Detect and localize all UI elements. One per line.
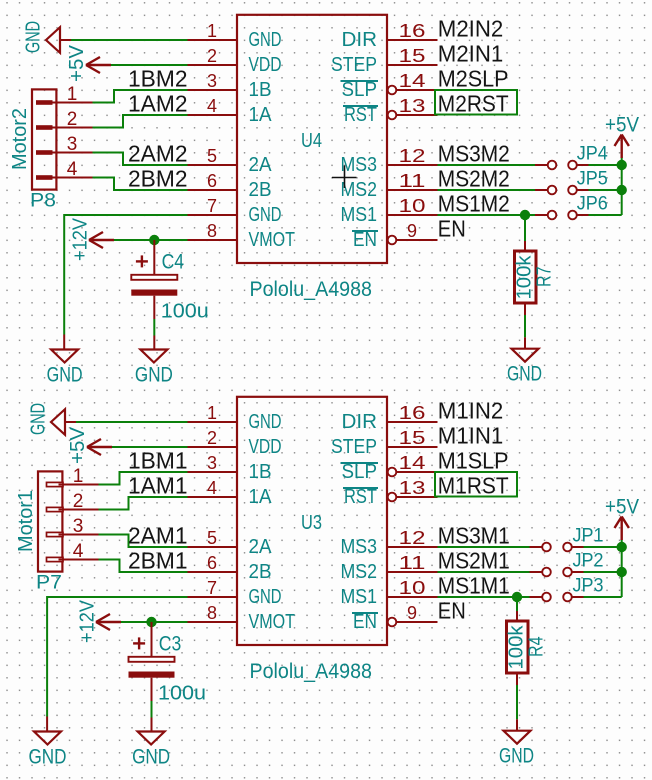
junction MS1M2 node: [520, 210, 530, 220]
pin 5 (2A): [188, 546, 238, 548]
wire GND to pin1: [76, 421, 188, 423]
svg-text:2AM2: 2AM2: [128, 141, 188, 167]
svg-text:16: 16: [399, 403, 426, 423]
wire C3 to ground: [151, 701, 153, 718]
capacitor C3 100u: [129, 622, 207, 705]
svg-text:JP1: JP1: [573, 525, 604, 546]
pin 9 (EN): [388, 236, 397, 245]
svg-text:+5V: +5V: [67, 426, 89, 464]
svg-text:MS1M1: MS1M1: [438, 573, 510, 599]
jumper JP5: [548, 168, 608, 194]
svg-text:GND: GND: [132, 745, 170, 768]
wire MS1M2 to R7: [524, 215, 526, 241]
svg-text:GND: GND: [28, 403, 50, 435]
wire P8 to 1BM2: [93, 90, 188, 103]
wire +5V rail: [621, 540, 623, 597]
svg-text:12: 12: [399, 146, 426, 166]
svg-text:+5V: +5V: [66, 44, 88, 82]
wire JP4 to +5V rail: [577, 164, 589, 166]
svg-text:VDD: VDD: [249, 54, 282, 76]
svg-text:MS2: MS2: [341, 561, 378, 583]
svg-text:MS1M2: MS1M2: [438, 191, 510, 217]
pin 10 (MS1): [387, 596, 438, 598]
svg-text:7: 7: [207, 578, 217, 598]
svg-text:8: 8: [207, 221, 217, 241]
svg-text:14: 14: [399, 453, 426, 473]
svg-text:MS1: MS1: [341, 204, 378, 226]
svg-text:4: 4: [207, 478, 217, 498]
svg-text:100k: 100k: [506, 624, 528, 669]
junction rail JP middle: [617, 185, 627, 195]
svg-text:2: 2: [73, 491, 84, 512]
power +5V (left): [67, 426, 112, 464]
svg-text:1B: 1B: [249, 79, 272, 101]
pin 14 (SLP): [388, 86, 397, 95]
global label box M2RST: [435, 90, 517, 115]
svg-text:STEP: STEP: [331, 436, 377, 458]
svg-text:MS3M2: MS3M2: [438, 141, 510, 167]
svg-text:2A: 2A: [249, 154, 273, 176]
svg-text:JP4: JP4: [577, 143, 608, 164]
pin 9 (EN): [388, 618, 397, 627]
pin 11 (MS2): [387, 571, 438, 573]
svg-text:16: 16: [399, 21, 426, 41]
svg-text:100u: 100u: [158, 683, 206, 705]
svg-text:MS3: MS3: [341, 154, 378, 176]
svg-text:JP6: JP6: [577, 193, 608, 214]
svg-text:3: 3: [67, 134, 78, 155]
svg-text:4: 4: [73, 541, 84, 562]
junction VMOT node: [146, 617, 156, 627]
wire P7 to 1BM1: [99, 472, 188, 485]
svg-text:Motor1: Motor1: [15, 490, 37, 552]
svg-text:+12V: +12V: [70, 217, 92, 261]
wire pin to MS1M1 jumper: [438, 596, 530, 598]
svg-text:GND: GND: [47, 363, 83, 386]
jumper JP6: [548, 193, 608, 219]
svg-text:M2IN1: M2IN1: [438, 41, 504, 67]
wire P8 to 1AM2: [93, 115, 188, 128]
wire P7 to 1AM1: [99, 497, 188, 510]
svg-text:EN: EN: [438, 216, 466, 242]
IC U3 Pololu_A4988: [188, 397, 438, 683]
svg-text:10: 10: [399, 196, 426, 216]
ground GND (under R4): [499, 731, 534, 768]
junction rail JP top: [617, 542, 627, 552]
svg-text:M2IN2: M2IN2: [438, 16, 504, 42]
svg-text:2B: 2B: [249, 179, 272, 201]
P7 pin 3: [47, 532, 64, 536]
svg-text:100u: 100u: [161, 301, 209, 323]
svg-text:M1RST: M1RST: [438, 473, 509, 499]
P8 pin 3: [36, 150, 53, 155]
svg-text:VDD: VDD: [249, 436, 282, 458]
svg-text:9: 9: [407, 603, 417, 623]
svg-text:3: 3: [207, 453, 217, 473]
wire MS1M1 to R4: [516, 597, 518, 611]
wire pin to MS3M2 jumper: [438, 164, 536, 166]
ground GND (top-left): [28, 403, 77, 435]
svg-text:1: 1: [67, 84, 78, 105]
svg-text:EN: EN: [353, 229, 377, 251]
wire P8 to 2AM2: [93, 153, 188, 166]
svg-text:11: 11: [399, 553, 426, 573]
svg-text:4: 4: [207, 96, 217, 116]
svg-text:P7: P7: [36, 573, 62, 594]
svg-text:DIR: DIR: [342, 29, 378, 51]
svg-text:13: 13: [399, 478, 426, 498]
svg-text:M2SLP: M2SLP: [438, 66, 509, 92]
ground GND (under R7): [507, 349, 542, 386]
wire R7 to ground: [524, 303, 526, 315]
svg-text:11: 11: [399, 171, 426, 191]
svg-text:GND: GND: [135, 363, 173, 386]
svg-text:U4: U4: [301, 130, 322, 152]
svg-text:3: 3: [207, 71, 217, 91]
svg-text:2: 2: [67, 109, 78, 130]
svg-text:6: 6: [207, 171, 217, 191]
svg-text:14: 14: [399, 71, 426, 91]
svg-text:P8: P8: [30, 191, 56, 212]
svg-text:2B: 2B: [249, 561, 272, 583]
svg-text:4: 4: [67, 159, 78, 180]
wire +5V rail: [621, 158, 623, 215]
svg-text:Pololu_A4988: Pololu_A4988: [250, 278, 373, 301]
pin 3 (1B): [188, 471, 238, 473]
svg-text:1: 1: [207, 403, 217, 423]
svg-text:1A: 1A: [249, 486, 273, 508]
svg-text:RST: RST: [344, 104, 377, 126]
svg-text:100k: 100k: [514, 254, 536, 299]
pin 14 (SLP): [388, 468, 397, 477]
junction rail JP top: [617, 160, 627, 170]
svg-text:GND: GND: [249, 29, 282, 51]
jumper JP2: [542, 550, 603, 576]
svg-text:1BM1: 1BM1: [128, 448, 188, 474]
svg-text:JP3: JP3: [573, 575, 604, 596]
wire +5V to pin2 (VDD): [112, 446, 188, 448]
pin 4 (1A): [188, 496, 238, 498]
svg-text:15: 15: [399, 428, 426, 448]
pin 16 (DIR): [387, 39, 438, 41]
ground GND (bottom-left): [29, 732, 67, 769]
wire JP3 to +5V rail: [572, 596, 584, 598]
svg-text:GND: GND: [249, 204, 282, 226]
svg-text:15: 15: [399, 46, 426, 66]
pin 13 (RST): [388, 493, 397, 502]
resistor R4 100k: [506, 621, 548, 673]
wire pin to MS1M2 jumper: [438, 214, 536, 216]
svg-text:M1SLP: M1SLP: [438, 448, 509, 474]
P7 pin 1: [47, 482, 64, 486]
pin 2 (VDD): [188, 64, 238, 66]
svg-text:JP5: JP5: [577, 168, 608, 189]
svg-text:+5V: +5V: [605, 496, 639, 519]
wire +5V to pin2 (VDD): [111, 64, 188, 66]
svg-text:M2RST: M2RST: [438, 91, 509, 117]
svg-text:VMOT: VMOT: [249, 229, 296, 251]
svg-text:GND: GND: [499, 745, 534, 768]
pin 15 (STEP): [387, 64, 438, 66]
svg-text:SLP: SLP: [342, 79, 378, 101]
wire GND to pin1: [71, 39, 188, 41]
wire +12V to pin8 (VMOT): [121, 621, 188, 623]
pin 8 (VMOT): [188, 239, 238, 241]
svg-text:Pololu_A4988: Pololu_A4988: [250, 660, 373, 683]
cursor crosshair: [332, 166, 357, 189]
pin 8 (VMOT): [188, 621, 238, 623]
pin 7 (GND): [188, 214, 238, 216]
svg-text:Motor2: Motor2: [9, 108, 31, 170]
svg-text:2: 2: [207, 428, 217, 448]
svg-text:C3: C3: [159, 633, 182, 656]
svg-text:MS2M2: MS2M2: [438, 166, 510, 192]
svg-text:1BM2: 1BM2: [128, 66, 188, 92]
svg-text:JP2: JP2: [573, 550, 604, 571]
svg-text:7: 7: [207, 196, 217, 216]
wire JP2 to +5V rail: [572, 571, 584, 573]
capacitor C4 100u: [131, 240, 209, 323]
svg-text:MS2: MS2: [341, 179, 378, 201]
pin 1 (GND): [188, 421, 238, 423]
P8 pin 2: [36, 125, 53, 130]
svg-text:SLP: SLP: [342, 461, 378, 483]
svg-text:1A: 1A: [249, 104, 273, 126]
svg-text:2: 2: [207, 46, 217, 66]
connector P7 (Motor1): [15, 466, 99, 594]
wire JP5 to +5V rail: [577, 189, 589, 191]
connector P8 (Motor2): [9, 84, 93, 212]
svg-text:1AM1: 1AM1: [128, 473, 188, 499]
pin 2 (VDD): [188, 446, 238, 448]
wire pin7 (GND) to ground: [47, 597, 187, 717]
power +5V (right): [605, 114, 639, 159]
svg-text:12: 12: [399, 528, 426, 548]
pin 16 (DIR): [387, 421, 438, 423]
svg-text:GND: GND: [23, 21, 45, 53]
svg-text:GND: GND: [249, 411, 282, 433]
resistor R7 100k: [514, 251, 556, 303]
wire pin to MS3M1 jumper: [438, 546, 530, 548]
P8 pin 1: [36, 100, 53, 105]
ground GND (bottom-left): [47, 350, 83, 387]
svg-text:1B: 1B: [249, 461, 272, 483]
ground GND (under C3): [132, 732, 170, 769]
wire P7 to 2AM1: [99, 535, 188, 548]
P8 pin 4: [36, 175, 53, 180]
svg-text:2A: 2A: [249, 536, 273, 558]
svg-text:DIR: DIR: [342, 411, 378, 433]
pin 4 (1A): [188, 114, 238, 116]
power +12V: [77, 599, 122, 643]
global label box M1RST: [435, 472, 517, 497]
svg-text:2AM1: 2AM1: [128, 523, 188, 549]
power +5V (left): [66, 44, 111, 82]
IC U4 Pololu_A4988: [188, 15, 438, 301]
svg-text:RST: RST: [344, 486, 377, 508]
wire P8 to 2BM2: [93, 178, 188, 191]
pin 12 (MS3): [387, 546, 438, 548]
pin 7 (GND): [188, 596, 238, 598]
pin 3 (1B): [188, 89, 238, 91]
svg-text:9: 9: [407, 221, 417, 241]
svg-text:3: 3: [73, 516, 84, 537]
wire P7 to 2BM1: [99, 560, 188, 573]
pin 5 (2A): [188, 164, 238, 166]
svg-text:MS3M1: MS3M1: [438, 523, 510, 549]
pin 13 (RST): [388, 111, 397, 120]
svg-text:MS3: MS3: [341, 536, 378, 558]
jumper JP4: [548, 143, 609, 169]
pin 11 (MS2): [387, 189, 438, 191]
svg-text:R4: R4: [526, 637, 548, 658]
svg-text:2BM1: 2BM1: [128, 548, 188, 574]
pin 1 (GND): [188, 39, 238, 41]
wire JP1 to +5V rail: [572, 546, 584, 548]
svg-text:R7: R7: [534, 267, 556, 288]
wire JP6 to +5V rail: [577, 214, 589, 216]
pin 10 (MS1): [387, 214, 438, 216]
junction MS1M1 node: [512, 592, 522, 602]
svg-text:M1IN2: M1IN2: [438, 398, 504, 424]
svg-text:1AM2: 1AM2: [128, 91, 188, 117]
svg-text:8: 8: [207, 603, 217, 623]
svg-text:MS1: MS1: [341, 586, 378, 608]
power +5V (right): [605, 496, 639, 541]
svg-text:1: 1: [73, 466, 84, 487]
svg-text:+5V: +5V: [605, 114, 639, 137]
svg-text:MS2M1: MS2M1: [438, 548, 510, 574]
svg-text:2BM2: 2BM2: [128, 166, 188, 192]
svg-text:10: 10: [399, 578, 426, 598]
junction rail JP middle: [617, 567, 627, 577]
svg-text:+12V: +12V: [77, 599, 99, 643]
wire pin7 (GND) to ground: [64, 215, 187, 335]
power +12V: [70, 217, 115, 261]
pin 6 (2B): [188, 571, 238, 573]
svg-text:GND: GND: [29, 745, 67, 768]
wire C4 to ground: [153, 319, 155, 336]
junction VMOT node: [149, 235, 159, 245]
svg-text:6: 6: [207, 553, 217, 573]
wire pin to MS2M1 jumper: [438, 571, 530, 573]
ground GND (under C4): [135, 350, 173, 387]
svg-text:EN: EN: [353, 611, 377, 633]
svg-text:STEP: STEP: [331, 54, 377, 76]
jumper JP3: [542, 575, 603, 601]
svg-text:VMOT: VMOT: [249, 611, 296, 633]
svg-text:5: 5: [207, 146, 217, 166]
svg-text:C4: C4: [162, 251, 185, 274]
svg-text:U3: U3: [301, 512, 322, 534]
P7 pin 4: [47, 557, 64, 561]
jumper JP1: [542, 525, 603, 551]
ground GND (top-left): [23, 21, 72, 53]
wire pin to MS2M2 jumper: [438, 189, 536, 191]
svg-text:13: 13: [399, 96, 426, 116]
pin 15 (STEP): [387, 446, 438, 448]
svg-text:GND: GND: [507, 363, 542, 386]
svg-text:1: 1: [207, 21, 217, 41]
pin 6 (2B): [188, 189, 238, 191]
wire +12V to pin8 (VMOT): [114, 239, 188, 241]
svg-text:EN: EN: [438, 598, 466, 624]
svg-text:5: 5: [207, 528, 217, 548]
svg-text:M1IN1: M1IN1: [438, 423, 504, 449]
wire R4 to ground: [516, 673, 518, 685]
P7 pin 2: [47, 507, 64, 511]
svg-text:GND: GND: [249, 586, 282, 608]
pin 12 (MS3): [387, 164, 438, 166]
